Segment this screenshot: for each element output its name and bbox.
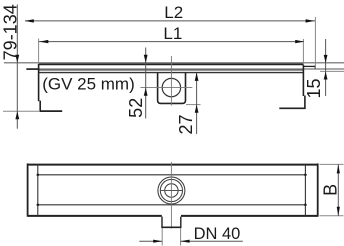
svg-text:DN 40: DN 40 <box>194 225 241 243</box>
svg-text:L1: L1 <box>163 24 182 43</box>
L1 right extension <box>302 39 304 64</box>
plan horizontal centerline <box>160 190 182 192</box>
plan left end cap <box>37 164 39 216</box>
svg-text:27: 27 <box>176 114 196 134</box>
L1 left extension <box>38 39 40 65</box>
rim inner line <box>39 69 304 71</box>
dimension L1 <box>39 40 305 43</box>
DN 40 stub <box>161 217 181 228</box>
svg-text:52: 52 <box>126 98 146 118</box>
rim mid line <box>26 68 344 70</box>
rim bottom <box>39 71 344 72</box>
left end flange <box>26 68 39 70</box>
stub extension lines <box>162 228 180 246</box>
svg-text:(GV 25 mm): (GV 25 mm) <box>42 75 135 94</box>
plan drain circles <box>158 177 185 204</box>
plan view outline <box>28 163 318 216</box>
svg-text:15: 15 <box>304 78 324 98</box>
dimension 79-134 <box>15 5 19 129</box>
svg-text:B: B <box>321 184 341 196</box>
horizontal centerline side view <box>140 87 192 89</box>
vertical centerline side view <box>170 56 172 106</box>
plan inner top line <box>38 174 306 176</box>
plan vertical centerline <box>170 162 172 229</box>
left wall <box>39 64 63 111</box>
rim right step <box>304 17 316 70</box>
dimension DN 40 <box>139 240 243 243</box>
outlet circle side view <box>162 78 180 96</box>
plan inner bottom line <box>38 204 306 206</box>
dimension B <box>320 164 344 215</box>
left foot extension line <box>3 110 40 112</box>
node floor reference line <box>4 62 344 64</box>
svg-text:L2: L2 <box>164 3 183 22</box>
outlet box bottom extension <box>186 104 201 106</box>
dimension 52 <box>144 48 148 119</box>
svg-text:79-134: 79-134 <box>0 4 20 60</box>
right wall <box>279 65 305 108</box>
channel rim top <box>39 63 304 65</box>
dimension L2 <box>25 19 315 22</box>
dimension 15 <box>324 39 328 96</box>
outlet box <box>158 73 186 104</box>
plan right end cap <box>304 164 306 216</box>
dimension 27 <box>195 73 199 134</box>
junction dots <box>37 174 307 207</box>
